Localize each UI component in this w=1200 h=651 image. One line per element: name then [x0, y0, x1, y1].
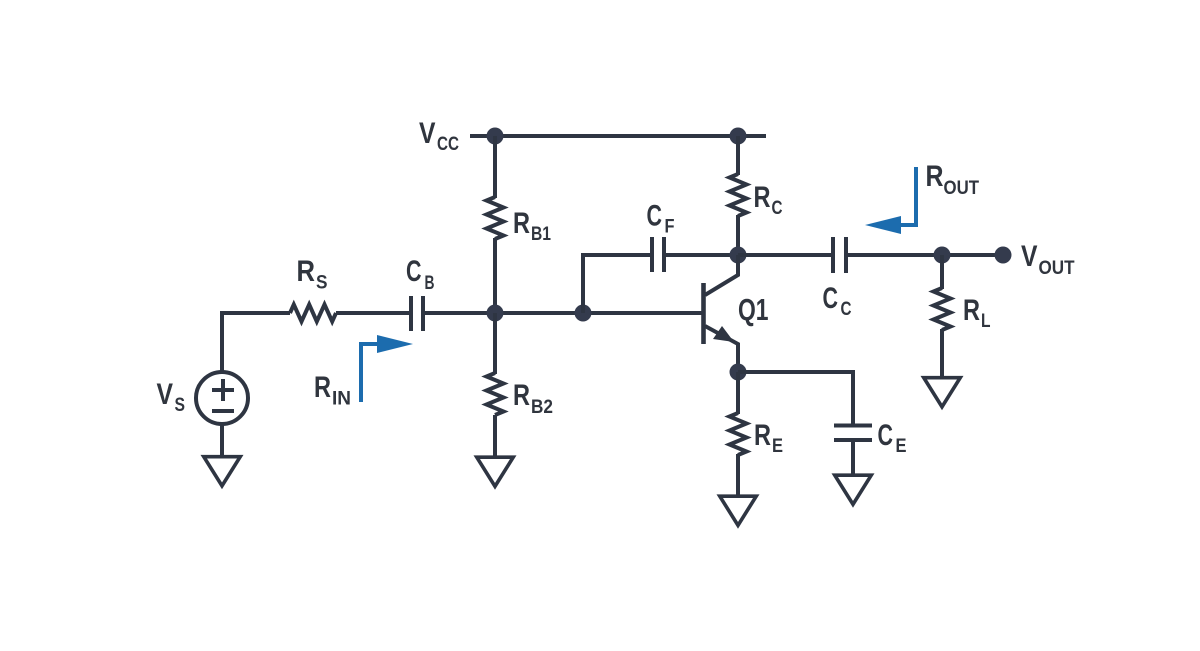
wire RC top — [736, 136, 740, 175]
ground VS — [204, 457, 241, 486]
ground RL — [924, 378, 961, 407]
label VOUT — [1021, 240, 1075, 279]
ground RE — [720, 496, 757, 525]
wire RC bottom — [736, 215, 740, 255]
svg-text:S: S — [316, 272, 328, 294]
svg-text:R: R — [314, 371, 331, 404]
node emitter — [730, 364, 747, 381]
wire CF to collector — [664, 253, 738, 257]
svg-text:R: R — [513, 207, 530, 240]
ground CE — [835, 475, 872, 504]
svg-text:V: V — [1021, 240, 1038, 273]
svg-text:IN: IN — [332, 388, 351, 410]
capacitor CE — [834, 426, 872, 441]
svg-text:C: C — [823, 282, 839, 315]
ground RB2 — [477, 457, 514, 486]
node base-bias — [487, 305, 504, 322]
wire VCC rail — [495, 134, 766, 138]
node VOUT terminal — [995, 247, 1012, 264]
transistor Q1 emitter lead — [705, 326, 738, 372]
resistor RS — [290, 305, 336, 322]
wire RB2 bottom — [493, 415, 497, 456]
label VCC — [419, 117, 459, 155]
resistor RC — [730, 174, 747, 216]
svg-text:E: E — [772, 435, 783, 457]
svg-text:B2: B2 — [531, 396, 553, 418]
wire RE bottom — [736, 454, 740, 495]
resistor RE — [730, 413, 747, 455]
svg-text:R: R — [754, 419, 771, 452]
arrow RIN — [361, 335, 413, 402]
svg-text:F: F — [665, 216, 675, 238]
label CE — [878, 419, 907, 457]
wire VS bottom — [220, 424, 224, 455]
wire RE top — [736, 372, 740, 414]
wire collector to CC — [738, 253, 833, 257]
wire CC to output — [846, 253, 996, 257]
svg-text:V: V — [419, 117, 436, 150]
label RS — [297, 255, 328, 294]
label ROUT — [926, 160, 980, 199]
svg-text:C: C — [406, 255, 422, 288]
svg-text:L: L — [981, 310, 991, 332]
arrow ROUT — [865, 167, 916, 234]
transistor Q1 collector lead — [705, 255, 738, 295]
svg-text:C: C — [841, 298, 852, 320]
svg-text:R: R — [926, 160, 944, 193]
capacitor CF — [652, 237, 664, 272]
label RL — [963, 294, 991, 332]
wire VS top — [222, 313, 290, 372]
node base-feedback — [575, 305, 592, 322]
transistor Q1 bar — [701, 283, 706, 344]
source VS circle — [196, 372, 248, 424]
label CB — [406, 255, 435, 294]
wire CF branch vertical — [583, 255, 652, 313]
label RC — [754, 181, 783, 219]
svg-text:C: C — [878, 419, 894, 452]
label RE — [754, 419, 783, 457]
wire VCC stub — [470, 134, 495, 138]
svg-text:C: C — [647, 200, 663, 233]
label CC — [823, 282, 852, 320]
wire RB1 bottom — [493, 238, 497, 313]
resistor RL — [934, 288, 951, 330]
wire CB to base — [423, 311, 703, 315]
label RB1 — [513, 207, 551, 245]
transistor Q1 emitter arrow — [713, 326, 734, 342]
node collector — [730, 247, 747, 264]
node VCC-RB1 — [487, 128, 504, 145]
svg-text:OUT: OUT — [944, 177, 980, 199]
resistor RB2 — [487, 373, 504, 415]
source VS plus — [212, 379, 234, 401]
svg-text:R: R — [963, 294, 980, 327]
svg-text:R: R — [297, 255, 316, 288]
svg-text:OUT: OUT — [1039, 257, 1075, 279]
wire RB1 top — [493, 136, 497, 198]
svg-text:R: R — [754, 181, 771, 214]
capacitor CC — [833, 237, 846, 273]
svg-text:B1: B1 — [531, 223, 551, 245]
label CF — [647, 200, 675, 238]
source VS minus — [212, 409, 234, 413]
svg-text:E: E — [896, 435, 907, 457]
label Vs — [157, 378, 186, 416]
svg-text:R: R — [513, 379, 530, 412]
resistor RB1 — [487, 197, 504, 239]
wire RB2 top — [493, 313, 497, 374]
svg-text:Q1: Q1 — [738, 292, 769, 327]
svg-text:C: C — [772, 197, 783, 219]
label RB2 — [513, 379, 553, 418]
node VCC-RC — [730, 128, 747, 145]
svg-text:CC: CC — [437, 133, 459, 155]
wire RL top — [940, 255, 944, 289]
svg-text:S: S — [175, 394, 186, 416]
node output — [934, 247, 951, 264]
svg-text:V: V — [157, 378, 174, 411]
wire RL bottom — [940, 329, 944, 376]
wire CE bottom — [851, 440, 855, 475]
svg-text:B: B — [425, 272, 435, 294]
label RIN — [314, 371, 351, 410]
wire emitter to CE — [738, 372, 853, 426]
capacitor CB — [411, 296, 423, 331]
wire RS to CB — [336, 311, 411, 315]
